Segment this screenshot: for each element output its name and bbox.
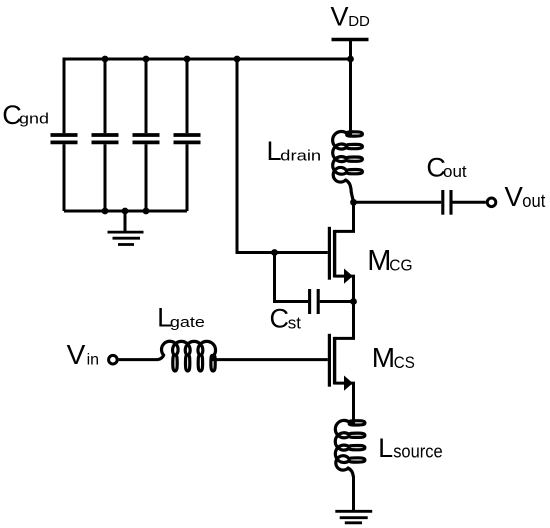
svg-text:M: M bbox=[367, 245, 391, 277]
transistor M_CG source arrow bbox=[344, 269, 353, 284]
svg-text:CG: CG bbox=[389, 257, 412, 274]
svg-text:V: V bbox=[331, 1, 349, 31]
wire M_CS drain up to node bbox=[352, 302, 355, 339]
node top rail x=187 bbox=[184, 56, 191, 63]
transistor M_CS drain stub bbox=[335, 337, 355, 340]
wire top rail bbox=[63, 58, 66, 61]
capacitor C_gnd branch 4 bottom wire bbox=[186, 144, 189, 211]
capacitor C_gnd branch 2 top wire bbox=[104, 59, 107, 133]
wire M_CS source down to L_source bbox=[352, 383, 355, 424]
capacitor C_gnd branch 4 top wire bbox=[186, 59, 189, 133]
capacitor C_gnd branch 1 bottom wire bbox=[63, 144, 66, 211]
power symbol V_DD bbox=[332, 38, 369, 41]
ground symbol left bbox=[108, 231, 144, 234]
inductor L_drain bbox=[333, 130, 363, 202]
node M_CG source / M_CS drain / C_st bbox=[350, 298, 357, 305]
svg-text:drain: drain bbox=[280, 147, 321, 164]
svg-text:out: out bbox=[522, 191, 545, 211]
wire M_CG source down to node bbox=[352, 276, 355, 301]
ground symbol right bbox=[335, 510, 372, 513]
node gate/C_st tap bbox=[271, 249, 278, 256]
capacitor C_gnd branch 3 bottom plate bbox=[133, 140, 160, 144]
svg-text:V: V bbox=[67, 339, 86, 370]
wire VDD stem bbox=[349, 40, 352, 60]
capacitor C_gnd branch 1 top wire bbox=[63, 59, 66, 133]
node output (drain/C_out) bbox=[350, 199, 357, 206]
transistor M_CS channel bar bbox=[333, 337, 336, 385]
node top rail x=105 bbox=[102, 56, 109, 63]
svg-text:out: out bbox=[443, 162, 467, 181]
inductor L_gate bbox=[158, 341, 218, 371]
wire V_in to L_gate bbox=[119, 358, 158, 361]
node VDD / L_drain bbox=[347, 56, 354, 63]
node top rail x=146 bbox=[143, 56, 150, 63]
capacitor C_gnd branch 3 top plate bbox=[133, 133, 160, 137]
capacitor C_gnd branch 2 top plate bbox=[92, 133, 119, 137]
wire VDD rail down to L_drain bbox=[349, 59, 352, 135]
svg-text:L: L bbox=[378, 433, 393, 463]
capacitor C_out left plate bbox=[441, 190, 444, 215]
wire C_st to source node bbox=[320, 300, 354, 303]
wire rail to M_CG gate bbox=[236, 59, 239, 253]
transistor M_CG drain stub bbox=[335, 230, 355, 233]
terminal V_in bbox=[109, 355, 118, 364]
terminal V_out bbox=[487, 198, 496, 207]
node bottom rail gnd tap bbox=[122, 208, 129, 215]
wire M_CG drain up to output node bbox=[352, 202, 355, 231]
wire bottom rail of C_gnd bank bbox=[64, 210, 187, 213]
node bottom rail 1 bbox=[102, 208, 109, 215]
capacitor C_gnd branch 3 top wire bbox=[145, 59, 148, 133]
svg-text:in: in bbox=[87, 352, 99, 369]
capacitor C_out right plate bbox=[449, 190, 452, 215]
transistor M_CG source stub bbox=[335, 275, 355, 278]
transistor M_CS source stub bbox=[335, 382, 355, 385]
svg-text:gate: gate bbox=[170, 314, 205, 331]
svg-text:DD: DD bbox=[348, 13, 370, 30]
node bottom rail 2 bbox=[143, 208, 150, 215]
transistor M_CG gate bar bbox=[328, 227, 331, 280]
node top rail x=237 bbox=[234, 56, 241, 63]
capacitor C_gnd branch 3 bottom wire bbox=[145, 144, 148, 211]
capacitor C_st right plate bbox=[317, 289, 320, 314]
capacitor C_st left plate bbox=[308, 289, 311, 314]
wire ground stem left bbox=[124, 211, 127, 232]
svg-text:source: source bbox=[393, 441, 443, 461]
wire L_source to ground bbox=[352, 477, 355, 511]
capacitor C_gnd branch 2 bottom plate bbox=[92, 140, 119, 144]
svg-text:st: st bbox=[288, 313, 302, 332]
inductor L_source bbox=[335, 419, 365, 477]
transistor M_CS gate bar bbox=[328, 334, 331, 387]
capacitor C_gnd branch 2 bottom wire bbox=[104, 144, 107, 211]
svg-text:gnd: gnd bbox=[19, 111, 49, 128]
transistor M_CS source arrow bbox=[344, 376, 353, 391]
svg-text:C: C bbox=[270, 304, 290, 334]
wire L_gate to M_CS gate bbox=[212, 358, 328, 361]
capacitor C_gnd branch 1 top plate bbox=[51, 133, 78, 137]
svg-text:V: V bbox=[505, 181, 524, 212]
wire C_out to V_out terminal bbox=[453, 201, 486, 204]
wire C_st drop bbox=[273, 253, 276, 302]
capacitor C_gnd branch 4 top plate bbox=[174, 133, 201, 137]
transistor M_CG channel bar bbox=[333, 230, 336, 278]
wire node to C_out bbox=[354, 201, 442, 204]
svg-text:CS: CS bbox=[394, 353, 415, 372]
svg-text:M: M bbox=[372, 342, 395, 373]
capacitor C_gnd branch 1 bottom plate bbox=[51, 140, 78, 144]
capacitor C_gnd branch 4 bottom plate bbox=[174, 140, 201, 144]
